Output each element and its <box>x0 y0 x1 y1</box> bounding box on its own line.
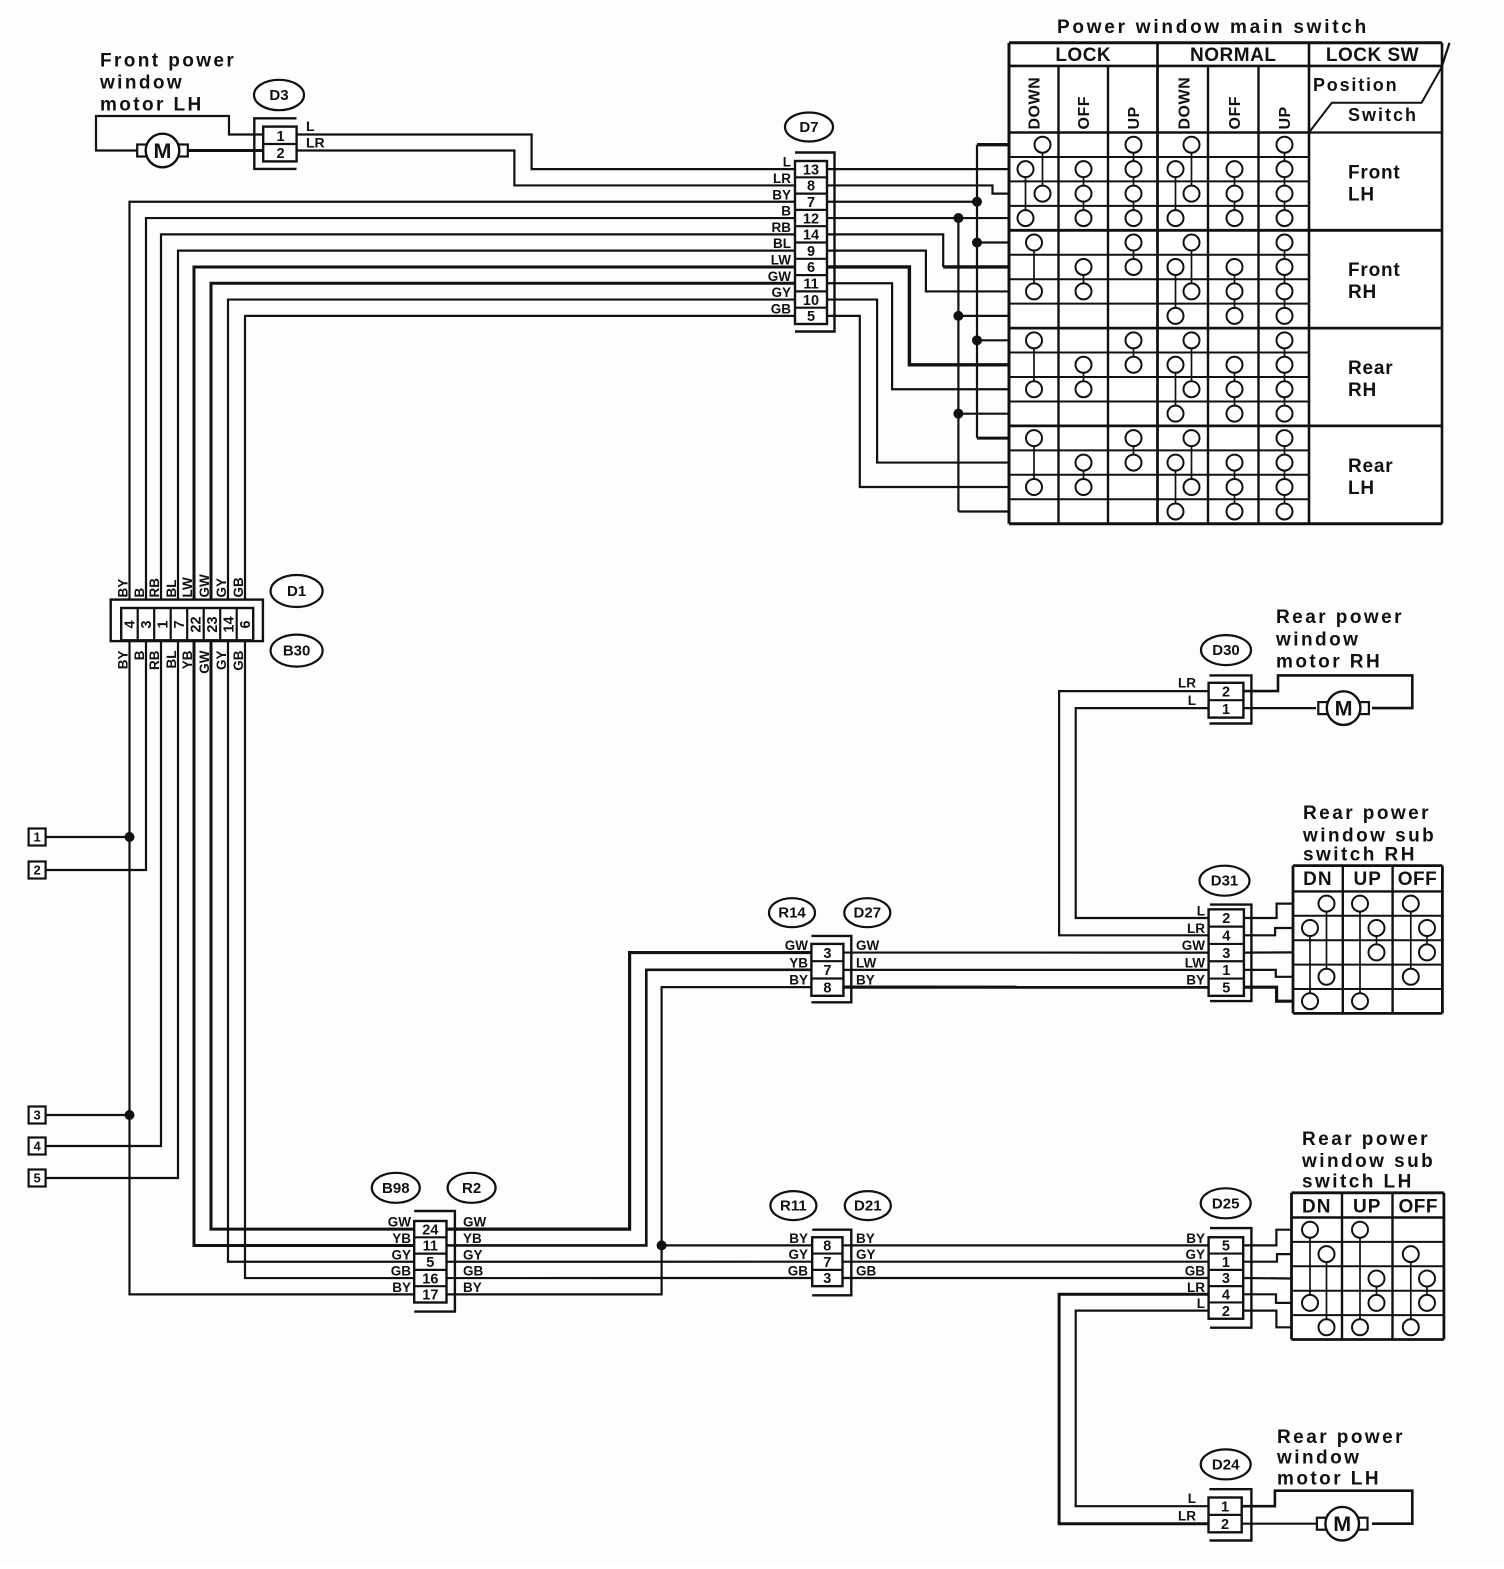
svg-text:UP: UP <box>1353 869 1381 890</box>
svg-text:L: L <box>1197 1296 1205 1311</box>
main switch contacts group Rear LH <box>1033 438 1035 487</box>
svg-text:window: window <box>1276 1448 1361 1469</box>
connector label ellipse D1 <box>271 575 323 607</box>
terminal box 1 <box>29 829 46 846</box>
connector label ellipse B30 <box>271 635 323 667</box>
junction: BY row5 <box>972 238 982 248</box>
connector label ellipse B98 <box>372 1173 420 1203</box>
connector label ellipse R14 <box>769 898 815 927</box>
svg-text:OFF: OFF <box>1398 1196 1438 1217</box>
connector label ellipse D24 <box>1201 1449 1251 1479</box>
svg-text:GY: GY <box>214 578 229 598</box>
svg-text:BL: BL <box>164 651 179 669</box>
junction: BY bus feed <box>972 197 982 207</box>
wire: LW/YB D7 pin6 - D1 - R2 pin11 <box>194 267 795 1245</box>
svg-text:1: 1 <box>33 830 40 845</box>
svg-text:B: B <box>781 204 791 219</box>
svg-text:GY: GY <box>214 651 229 671</box>
svg-text:BY: BY <box>116 651 131 670</box>
terminal box 5 <box>29 1170 46 1187</box>
svg-text:GW: GW <box>856 938 880 953</box>
svg-text:GB: GB <box>231 650 246 671</box>
wire: terminal box1 to BY bus <box>46 836 130 838</box>
wire: GB D7 pin5 to table row15 <box>827 316 1009 487</box>
svg-text:LW: LW <box>856 955 877 970</box>
svg-text:BY: BY <box>772 187 791 202</box>
svg-text:LR: LR <box>773 171 791 186</box>
junction: B row12 <box>953 409 963 419</box>
wire: BY D7 pin7 to BY bus <box>827 201 977 203</box>
svg-text:LR: LR <box>1178 1509 1196 1524</box>
svg-text:3: 3 <box>139 620 155 628</box>
svg-text:14: 14 <box>222 616 238 632</box>
wire: front motor LH loop to D3 pin1 <box>96 116 264 151</box>
svg-text:BY: BY <box>392 1280 411 1295</box>
wire: front motor LH to D3 pin2 (LR) <box>189 149 264 152</box>
svg-text:3: 3 <box>33 1108 40 1123</box>
svg-text:D21: D21 <box>854 1198 882 1215</box>
connector D31 (rear sub switch RH) <box>1209 905 1252 1002</box>
svg-text:LW: LW <box>180 577 195 598</box>
svg-text:4: 4 <box>1222 1288 1230 1304</box>
svg-text:D1: D1 <box>287 583 306 600</box>
svg-text:8: 8 <box>823 980 831 996</box>
junction: B bus feed <box>953 213 963 223</box>
wire: B bus to row8 <box>958 315 1009 317</box>
connector R14/D27 <box>811 936 851 1002</box>
svg-text:LW: LW <box>1185 955 1206 970</box>
svg-text:UP: UP <box>1126 106 1143 129</box>
wire: BY branch to R11 pin8 <box>662 1244 813 1246</box>
svg-text:BL: BL <box>164 580 179 598</box>
svg-text:B98: B98 <box>382 1180 410 1197</box>
svg-text:BL: BL <box>773 236 791 251</box>
wire: L D25 pin2 to D24 pin1 <box>1076 1311 1209 1507</box>
svg-text:24: 24 <box>422 1222 438 1238</box>
svg-text:window sub: window sub <box>1302 826 1436 847</box>
svg-text:D27: D27 <box>854 905 882 922</box>
rear power window sub switch LH table <box>1292 1193 1444 1340</box>
connector D24 (rear motor LH) <box>1209 1489 1252 1540</box>
svg-text:YB: YB <box>180 650 195 669</box>
svg-text:LH: LH <box>1348 478 1375 499</box>
wire: GY R11 pin7 to D25 pin1 <box>843 1261 1209 1263</box>
wire: D31 pin4 to sub RH row2 <box>1244 928 1293 935</box>
svg-text:GW: GW <box>197 650 212 674</box>
wire: B bus vertical <box>957 218 959 511</box>
wire: B bus to row16 <box>958 510 1009 512</box>
svg-text:switch LH: switch LH <box>1302 1172 1414 1193</box>
wire: GY D7 pin10 - D1 - R2 pin5 <box>228 300 795 1262</box>
svg-text:B: B <box>132 588 147 598</box>
svg-text:14: 14 <box>803 228 819 244</box>
wire: D24 pin2 to motor LH <box>1242 1523 1316 1525</box>
wire: LR D7 pin8 to table row3 <box>827 185 1009 193</box>
wire: LR D25 pin4 to D24 pin2 <box>1059 1294 1209 1523</box>
svg-text:LR: LR <box>1178 676 1196 691</box>
wire: D30 pin2 over motor RH <box>1243 675 1412 708</box>
wire: D31 pin5 to sub RH row5 <box>1244 987 1293 1001</box>
main switch contacts group Front RH <box>1033 243 1035 292</box>
svg-text:L: L <box>1188 693 1196 708</box>
svg-text:D7: D7 <box>799 119 818 136</box>
svg-text:M: M <box>1335 697 1353 721</box>
sub switch RH contacts <box>1326 904 1328 977</box>
svg-text:D31: D31 <box>1211 873 1239 890</box>
svg-text:Rear: Rear <box>1348 456 1393 477</box>
svg-text:1: 1 <box>1222 702 1230 718</box>
wire: BY bus to row13 <box>977 437 1009 440</box>
connector label ellipse R11 <box>770 1191 816 1220</box>
svg-text:2: 2 <box>1221 1517 1229 1533</box>
svg-text:GW: GW <box>785 938 809 953</box>
svg-text:Rear power: Rear power <box>1277 1427 1405 1448</box>
svg-text:GB: GB <box>856 1264 877 1279</box>
svg-text:GB: GB <box>771 301 792 316</box>
connector D25 (rear sub switch LH) <box>1209 1228 1252 1328</box>
main switch contacts group Rear RH <box>1033 340 1035 389</box>
svg-text:RB: RB <box>772 220 792 235</box>
svg-text:BY: BY <box>116 579 131 598</box>
svg-text:UP: UP <box>1353 1196 1381 1217</box>
svg-text:5: 5 <box>426 1255 434 1271</box>
svg-text:11: 11 <box>803 276 818 292</box>
svg-text:switch RH: switch RH <box>1303 845 1417 866</box>
svg-text:window: window <box>1275 630 1360 651</box>
svg-text:5: 5 <box>1222 1239 1230 1255</box>
svg-text:YB: YB <box>789 955 808 970</box>
terminal box 2 <box>29 862 46 879</box>
connector label ellipse D30 <box>1201 635 1251 665</box>
wire: GW D27 pin3 to D31 pin3 <box>843 951 1208 953</box>
svg-text:R14: R14 <box>778 905 806 922</box>
svg-text:1: 1 <box>1221 1499 1229 1515</box>
svg-text:LH: LH <box>1348 184 1375 205</box>
svg-text:GY: GY <box>391 1247 411 1262</box>
wire: BY bus to row9 <box>977 339 1009 341</box>
svg-text:2: 2 <box>1222 911 1230 927</box>
svg-text:4: 4 <box>1222 929 1230 945</box>
wire: D30 pin1 to motor RH <box>1243 707 1316 709</box>
svg-text:16: 16 <box>422 1271 438 1287</box>
svg-text:D3: D3 <box>269 87 288 104</box>
svg-text:LR: LR <box>1187 921 1205 936</box>
svg-text:Switch: Switch <box>1348 105 1418 125</box>
svg-text:RB: RB <box>147 578 162 598</box>
svg-text:LW: LW <box>771 252 792 267</box>
connector D3 (front motor LH) <box>254 118 296 169</box>
svg-text:window sub: window sub <box>1301 1151 1435 1172</box>
svg-text:L: L <box>1197 904 1205 919</box>
wire: BY bus to row5 <box>977 241 1009 243</box>
wire: D24 pin1 over motor LH <box>1242 1491 1413 1524</box>
terminal box 3 <box>29 1107 46 1124</box>
svg-text:Front: Front <box>1348 162 1401 183</box>
wire: BL D7 pin9 to table row7 <box>827 251 1009 292</box>
svg-text:3: 3 <box>823 946 831 962</box>
svg-text:5: 5 <box>807 309 815 325</box>
terminal box 4 <box>29 1138 46 1155</box>
connector D30 (rear motor RH) <box>1209 675 1252 723</box>
svg-text:UP: UP <box>1277 106 1294 129</box>
svg-text:LOCK: LOCK <box>1055 45 1111 66</box>
wire: BY R11 pin8 to D25 pin5 <box>843 1244 1209 1246</box>
connector label ellipse D3 <box>254 80 304 110</box>
wire: D25 pin1 to sub LH row2 <box>1243 1254 1291 1262</box>
wire: BL D7 pin9 - D1 - terminal box 5 <box>46 251 795 1178</box>
wire: YB R2 pin11 to D27 pin7 <box>447 970 812 1246</box>
wire: GW D7 pin11 - D1 - R2 pin24 <box>211 283 795 1229</box>
wire: BY D27 pin8 to D31 pin5 <box>843 986 1208 989</box>
svg-text:motor RH: motor RH <box>1276 652 1382 673</box>
svg-text:GY: GY <box>856 1247 876 1262</box>
svg-text:4: 4 <box>33 1139 41 1154</box>
svg-text:Front power: Front power <box>100 51 236 72</box>
svg-text:Position: Position <box>1313 75 1398 95</box>
svg-text:GY: GY <box>771 285 791 300</box>
wire: LW D7 pin6 to table row10 <box>827 267 1009 365</box>
wire: D25 pin5 to sub LH row1 <box>1243 1230 1291 1246</box>
connector label ellipse D27 <box>844 898 890 927</box>
svg-text:Rear power: Rear power <box>1302 1129 1430 1150</box>
svg-text:12: 12 <box>803 211 819 227</box>
motor M rear power window LH <box>1317 1518 1327 1530</box>
svg-text:GB: GB <box>788 1264 809 1279</box>
wire: D31 pin1 to sub RH row4 <box>1244 970 1293 977</box>
svg-text:7: 7 <box>172 620 188 628</box>
svg-text:5: 5 <box>1222 980 1230 996</box>
svg-text:GB: GB <box>231 577 246 598</box>
wire: GW R2 pin24 to D27 pin3 <box>447 953 812 1230</box>
svg-text:GB: GB <box>463 1264 484 1279</box>
wire: D25 pin3 to sub LH row3 <box>1243 1277 1291 1280</box>
main switch contacts group Front LH <box>1042 145 1044 194</box>
wire: BY D7 pin7 - D1 - R2 pin17 <box>130 202 796 1295</box>
motor M front power window LH <box>137 145 147 157</box>
svg-text:B30: B30 <box>283 643 311 660</box>
svg-text:GW: GW <box>768 269 792 284</box>
svg-text:7: 7 <box>807 195 815 211</box>
wire: L D3 pin1 to D7 pin13 <box>297 135 795 170</box>
svg-text:YB: YB <box>392 1231 411 1246</box>
connector label ellipse D21 <box>845 1191 891 1220</box>
svg-text:1: 1 <box>276 129 284 145</box>
svg-text:OFF: OFF <box>1076 96 1093 130</box>
svg-text:BY: BY <box>856 1231 875 1246</box>
wire: D25 pin4 to sub LH row4 <box>1243 1294 1291 1303</box>
junction: BY row9 <box>972 335 982 345</box>
svg-text:BY: BY <box>789 1231 808 1246</box>
connector label ellipse D25 <box>1201 1188 1251 1218</box>
svg-text:GW: GW <box>388 1215 412 1230</box>
svg-text:6: 6 <box>238 620 254 628</box>
junction: BY to R11 branch <box>657 1240 667 1250</box>
svg-text:motor LH: motor LH <box>100 95 204 116</box>
svg-text:D24: D24 <box>1212 1456 1240 1473</box>
svg-text:DN: DN <box>1303 869 1332 890</box>
svg-text:2: 2 <box>33 863 40 878</box>
power window main switch table grid <box>1009 43 1450 524</box>
wire: GB R2 pin16 to R11 pin3 <box>447 1277 813 1279</box>
svg-text:LOCK SW: LOCK SW <box>1326 45 1419 66</box>
wire: BY R2 pin17 up to D27 pin8 <box>447 987 812 1294</box>
wire: GB R11 pin3 to D25 pin3 <box>843 1277 1209 1279</box>
wire: LR D30 pin2 to D31 pin4 <box>1059 691 1209 935</box>
wire: D25 pin2 to sub LH row5 <box>1243 1311 1291 1328</box>
wire: GY R2 pin5 to R11 pin7 <box>447 1261 813 1263</box>
wire: BY bus vertical <box>976 145 978 438</box>
svg-text:GB: GB <box>391 1264 412 1279</box>
svg-text:DOWN: DOWN <box>1177 77 1194 130</box>
svg-text:LR: LR <box>306 135 325 151</box>
svg-text:D30: D30 <box>1212 642 1240 659</box>
svg-text:BY: BY <box>856 973 875 988</box>
wire: L D7 pin13 to table row2 <box>827 168 1009 170</box>
svg-text:GW: GW <box>197 574 212 598</box>
svg-text:BY: BY <box>1186 1231 1205 1246</box>
svg-text:OFF: OFF <box>1398 869 1438 890</box>
wire: L D30 pin1 to D31 pin2 <box>1076 708 1209 918</box>
wire: BY bus to row1 <box>977 143 1009 146</box>
wire: B bus to row12 <box>958 413 1009 415</box>
svg-text:M: M <box>154 139 172 163</box>
svg-text:Rear power: Rear power <box>1303 803 1431 824</box>
svg-text:10: 10 <box>803 293 819 309</box>
svg-text:L: L <box>1188 1491 1196 1506</box>
svg-text:8: 8 <box>823 1239 831 1255</box>
svg-text:GB: GB <box>1185 1264 1206 1279</box>
wire: D31 pin2 to sub RH row1 <box>1244 904 1293 918</box>
svg-text:3: 3 <box>1222 946 1230 962</box>
svg-text:1: 1 <box>1222 963 1230 979</box>
svg-text:NORMAL: NORMAL <box>1190 45 1276 66</box>
wire: GB D7 pin5 - D1 - R2 pin16 <box>245 316 795 1278</box>
svg-text:6: 6 <box>807 260 815 276</box>
svg-text:GW: GW <box>463 1215 487 1230</box>
svg-text:1: 1 <box>1222 1255 1230 1271</box>
svg-text:BY: BY <box>463 1280 482 1295</box>
connector D1/B30 (bulkhead) <box>111 600 263 642</box>
svg-text:7: 7 <box>823 963 831 979</box>
wire: terminal box3 to BY bus <box>46 1114 130 1116</box>
motor M rear power window RH <box>1318 702 1328 714</box>
svg-text:M: M <box>1333 1512 1351 1536</box>
rear power window sub switch RH table <box>1293 866 1442 1014</box>
svg-text:23: 23 <box>205 616 221 632</box>
wire: GY D7 pin10 to table row14 <box>827 300 1009 463</box>
svg-text:RH: RH <box>1348 380 1377 401</box>
svg-text:GY: GY <box>1185 1247 1205 1262</box>
svg-text:window: window <box>99 73 184 94</box>
svg-text:RH: RH <box>1348 282 1377 303</box>
wire: B D7 pin12 - D1 - terminal box 2 <box>46 218 795 870</box>
svg-text:9: 9 <box>807 244 815 260</box>
svg-text:GW: GW <box>1182 938 1206 953</box>
svg-text:motor LH: motor LH <box>1277 1469 1381 1490</box>
svg-text:11: 11 <box>423 1239 438 1255</box>
connector label ellipse D7 <box>785 113 833 142</box>
svg-text:3: 3 <box>823 1271 831 1287</box>
junction: B row8 <box>953 311 963 321</box>
junction: box1-BY <box>125 832 135 842</box>
svg-text:Rear: Rear <box>1348 358 1393 379</box>
connector D7 (door harness) <box>795 153 835 332</box>
svg-text:8: 8 <box>807 179 815 195</box>
svg-text:LR: LR <box>1187 1280 1205 1295</box>
wire: RB D7 pin14 to table row6 <box>827 234 943 267</box>
connector label ellipse D31 <box>1200 866 1250 896</box>
svg-text:D25: D25 <box>1212 1195 1240 1212</box>
svg-text:BY: BY <box>789 973 808 988</box>
svg-text:17: 17 <box>422 1288 438 1304</box>
svg-text:13: 13 <box>803 162 819 178</box>
svg-text:RB: RB <box>147 650 162 670</box>
wire: B D7 pin12 to table row4 <box>827 217 1009 219</box>
svg-text:4: 4 <box>123 620 139 628</box>
svg-text:R11: R11 <box>780 1198 807 1215</box>
wire: GW D7 pin11 to table row11 <box>827 283 1009 389</box>
svg-text:Rear power: Rear power <box>1276 607 1404 628</box>
svg-text:GY: GY <box>463 1247 483 1262</box>
svg-text:Power window main switch: Power window main switch <box>1057 17 1369 38</box>
svg-text:R2: R2 <box>462 1180 481 1197</box>
connector label ellipse R2 <box>448 1173 496 1203</box>
svg-text:2: 2 <box>276 146 284 162</box>
svg-text:OFF: OFF <box>1227 96 1244 130</box>
svg-text:2: 2 <box>1222 685 1230 701</box>
svg-text:5: 5 <box>33 1171 40 1186</box>
svg-text:B: B <box>132 650 147 660</box>
svg-text:Front: Front <box>1348 260 1401 281</box>
svg-text:L: L <box>306 118 315 134</box>
svg-text:YB: YB <box>463 1231 482 1246</box>
svg-text:BY: BY <box>1186 973 1205 988</box>
wire: LW D27 pin7 to D31 pin1 <box>843 969 1208 971</box>
connector B98/R2 <box>414 1211 455 1312</box>
svg-text:7: 7 <box>823 1255 831 1271</box>
svg-text:L: L <box>783 155 791 170</box>
svg-text:GY: GY <box>788 1247 808 1262</box>
wire: RB D7 pin14 - D1 - terminal box 4 <box>46 234 795 1146</box>
svg-text:22: 22 <box>189 616 205 632</box>
wire: LR D3 pin2 to D7 pin8 <box>297 151 795 186</box>
svg-text:DN: DN <box>1302 1196 1331 1217</box>
position/switch zigzag divider <box>1309 66 1442 133</box>
svg-text:1: 1 <box>156 620 172 628</box>
junction: box3-BY <box>125 1110 135 1120</box>
svg-text:DOWN: DOWN <box>1027 77 1044 130</box>
wire: D31 pin3 to sub RH row3 <box>1244 951 1293 953</box>
svg-text:3: 3 <box>1222 1271 1230 1287</box>
connector R11/D21 <box>812 1230 851 1296</box>
svg-text:2: 2 <box>1222 1304 1230 1320</box>
sub switch LH contacts <box>1309 1230 1311 1303</box>
